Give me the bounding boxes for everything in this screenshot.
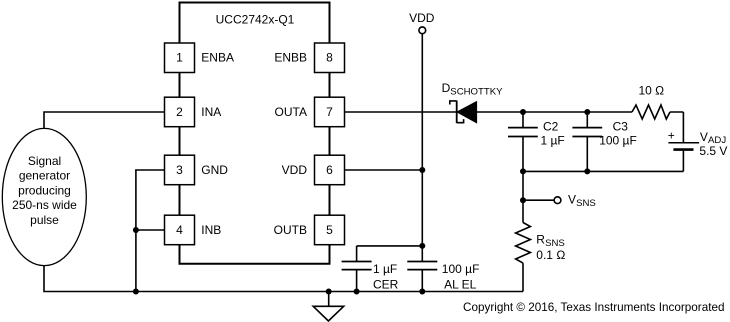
svg-text:Signal: Signal bbox=[28, 154, 61, 168]
svg-text:5: 5 bbox=[326, 223, 333, 237]
wire generator top to pin 2 INA bbox=[44, 112, 165, 129]
svg-text:2: 2 bbox=[176, 105, 183, 119]
IC U1 UCC2742x-Q1 body outline bbox=[180, 3, 330, 264]
svg-text:Copyright © 2016, Texas Instru: Copyright © 2016, Texas Instruments Inco… bbox=[463, 300, 725, 314]
svg-text:8: 8 bbox=[326, 50, 333, 64]
ground bbox=[313, 289, 344, 322]
node junction C3 top bbox=[584, 109, 590, 115]
svg-text:4: 4 bbox=[176, 223, 183, 237]
svg-text:OUTA: OUTA bbox=[275, 105, 307, 119]
svg-text:V: V bbox=[700, 130, 708, 144]
wire pin 6 VDD to VDD vertical bbox=[345, 169, 423, 171]
svg-text:5.5 V: 5.5 V bbox=[699, 144, 727, 158]
node junction VDD vertical / cap top wire bbox=[419, 243, 425, 249]
svg-text:D: D bbox=[442, 81, 451, 95]
node junction GND vertical / bottom rail bbox=[133, 289, 139, 295]
wire cap top rail bbox=[357, 245, 423, 247]
capacitor 1uF CER bbox=[342, 246, 399, 292]
wire pin 4 INB to vertical bbox=[136, 229, 165, 231]
svg-text:R: R bbox=[536, 233, 545, 247]
svg-text:ENBB: ENBB bbox=[274, 50, 307, 64]
pin 1 box bbox=[165, 43, 195, 73]
svg-text:SNS: SNS bbox=[576, 198, 596, 209]
svg-text:3: 3 bbox=[176, 163, 183, 177]
diode D_SCHOTTKY bbox=[450, 101, 477, 123]
svg-text:6: 6 bbox=[326, 163, 333, 177]
wire VDD vertical bbox=[421, 34, 423, 246]
svg-text:ENBA: ENBA bbox=[201, 50, 234, 64]
svg-text:1 µF: 1 µF bbox=[541, 134, 565, 148]
svg-text:0.1 Ω: 0.1 Ω bbox=[536, 248, 565, 262]
node V_SNS terminal bbox=[520, 193, 596, 210]
node junction pin6 / VDD vertical bbox=[419, 167, 425, 173]
pin 3 box bbox=[165, 155, 195, 185]
svg-text:250-ns wide: 250-ns wide bbox=[12, 198, 77, 212]
svg-text:V: V bbox=[568, 193, 576, 207]
svg-text:GND: GND bbox=[201, 163, 228, 177]
node junction 100uF bottom / rail bbox=[419, 289, 425, 295]
svg-text:C2: C2 bbox=[543, 120, 559, 134]
svg-text:7: 7 bbox=[326, 105, 333, 119]
capacitor 100uF AL EL bbox=[407, 246, 479, 292]
pin 5 box bbox=[315, 215, 345, 245]
svg-text:1: 1 bbox=[176, 50, 183, 64]
svg-text:VDD: VDD bbox=[409, 11, 435, 25]
svg-text:pulse: pulse bbox=[30, 213, 59, 227]
pin 7 box bbox=[315, 97, 345, 127]
wire mid rail C2/C3/battery bottoms bbox=[523, 170, 683, 172]
node junction pin4/GND vertical bbox=[133, 227, 139, 233]
resistor 10 ohm bbox=[632, 83, 670, 119]
signal generator source bbox=[2, 128, 86, 265]
svg-text:1 µF: 1 µF bbox=[373, 262, 397, 276]
svg-text:UCC2742x-Q1: UCC2742x-Q1 bbox=[216, 13, 295, 27]
node junction C2 top bbox=[520, 109, 526, 115]
resistor R_SNS bbox=[516, 223, 566, 264]
svg-text:INA: INA bbox=[201, 105, 221, 119]
pin 4 box bbox=[165, 215, 195, 245]
wire R_SNS bottom to rail bbox=[522, 263, 524, 291]
svg-text:SCHOTTKY: SCHOTTKY bbox=[450, 86, 503, 97]
svg-text:AL EL: AL EL bbox=[444, 277, 477, 291]
wire generator bottom to ground rail bbox=[44, 266, 523, 292]
node junction 1uF bottom / rail bbox=[354, 289, 360, 295]
wire mid rail down to R_SNS bbox=[522, 171, 524, 222]
wire pin 3 GND down to rail bbox=[136, 170, 165, 292]
svg-text:100 µF: 100 µF bbox=[599, 134, 637, 148]
svg-text:generator: generator bbox=[19, 169, 70, 183]
svg-text:producing: producing bbox=[18, 183, 71, 197]
node junction C2 bottom / mid rail bbox=[520, 168, 526, 174]
svg-text:CER: CER bbox=[373, 277, 399, 291]
svg-text:10 Ω: 10 Ω bbox=[638, 83, 664, 97]
svg-text:100 µF: 100 µF bbox=[442, 262, 480, 276]
svg-text:+: + bbox=[668, 129, 675, 143]
pin 8 box bbox=[315, 43, 345, 73]
svg-text:VDD: VDD bbox=[282, 163, 308, 177]
wire diode to battery corner bbox=[477, 111, 684, 113]
battery V_ADJ bbox=[668, 112, 728, 171]
VDD terminal bbox=[409, 11, 435, 34]
pin 2 box bbox=[165, 97, 195, 127]
capacitor C2 bbox=[508, 112, 565, 171]
svg-text:INB: INB bbox=[201, 223, 221, 237]
svg-text:OUTB: OUTB bbox=[274, 223, 307, 237]
label D_SCHOTTKY bbox=[442, 81, 504, 97]
pin 6 box bbox=[315, 155, 345, 185]
svg-text:C3: C3 bbox=[613, 120, 629, 134]
node junction C3 bottom / mid rail bbox=[584, 168, 590, 174]
wire pin 7 OUTA to diode bbox=[345, 111, 457, 113]
capacitor C3 bbox=[572, 112, 636, 171]
